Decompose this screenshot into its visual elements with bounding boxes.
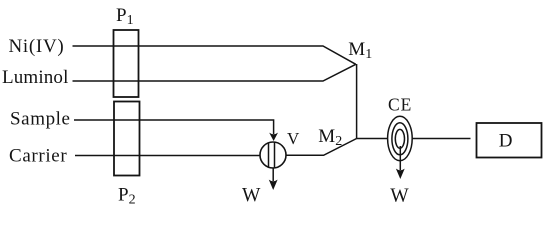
svg-text:Sample: Sample: [10, 109, 71, 130]
svg-text:Carrier: Carrier: [9, 145, 67, 166]
wire valve waste: [272, 168, 274, 181]
wire Sample to valve: [74, 120, 274, 134]
pump P1: [114, 30, 139, 97]
wire flow cell to detector: [413, 138, 471, 140]
svg-text:CE: CE: [388, 95, 412, 115]
svg-text:W: W: [242, 185, 261, 206]
svg-text:D: D: [499, 131, 513, 152]
svg-text:Ni(IV): Ni(IV): [9, 36, 65, 57]
wire valve to M2: [286, 139, 357, 156]
arrowhead flow cell waste: [396, 169, 405, 179]
flow cell CE outer coil: [388, 116, 413, 160]
wire Ni(IV) to M1: [73, 46, 356, 64]
flow cell CE middle coil: [392, 123, 408, 155]
arrowhead into valve: [269, 133, 278, 141]
detector D box: [477, 123, 542, 158]
wire M1 to M2: [356, 64, 358, 139]
svg-text:W: W: [390, 185, 409, 206]
wire M2 to flow cell: [357, 138, 388, 140]
wire Luminol to M1: [73, 64, 356, 81]
pump P2: [114, 102, 140, 176]
valve V circle: [260, 142, 286, 168]
wire flow cell waste: [399, 146, 401, 170]
flow cell CE inner coil: [395, 129, 404, 148]
arrowhead valve waste: [269, 180, 278, 190]
valve slot line left: [268, 143, 270, 167]
svg-text:V: V: [287, 129, 300, 148]
wire Carrier to valve: [75, 155, 260, 157]
svg-text:Luminol: Luminol: [2, 67, 69, 88]
valve slot line right: [274, 142, 276, 168]
